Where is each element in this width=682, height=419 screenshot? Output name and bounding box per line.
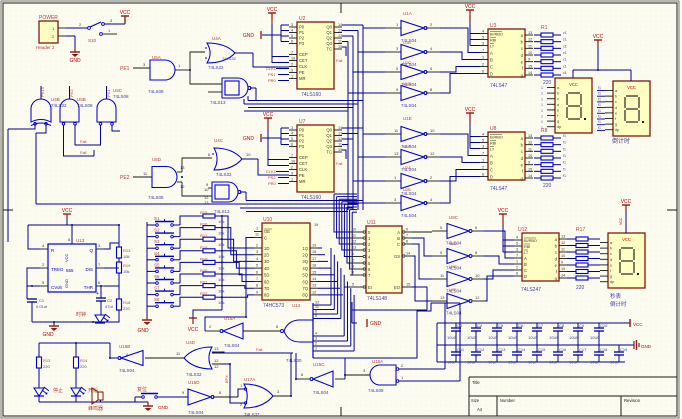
svg-text:2: 2 [482,166,484,170]
svg-text:10UF: 10UF [508,360,518,365]
svg-text:U5B: U5B [77,97,86,102]
svg-text:U2A: U2A [403,165,411,170]
svg-text:VCC: VCC [62,208,73,214]
svg-text:BI/RBO: BI/RBO [524,239,537,243]
svg-text:PX1: PX1 [106,89,111,97]
svg-text:B: B [490,160,493,165]
svg-text:PE: PE [299,173,305,178]
svg-text:3: 3 [352,265,354,269]
svg-text:U1D: U1D [403,81,411,86]
svg-text:1: 1 [352,252,354,256]
svg-text:D: D [524,274,527,279]
svg-text:秒表: 秒表 [610,292,622,300]
svg-text:3: 3 [516,248,518,252]
svg-text:3: 3 [482,42,484,46]
svg-text:f1: f1 [598,109,601,113]
svg-text:R19: R19 [123,263,131,268]
svg-text:10UF: 10UF [569,335,579,340]
svg-text:10k: 10k [218,231,224,236]
svg-text:C6: C6 [518,323,524,328]
svg-text:TC: TC [326,150,332,155]
svg-text:c1: c1 [563,38,567,42]
svg-text:f1: f1 [598,97,601,101]
svg-text:R17: R17 [576,227,585,233]
svg-text:1D: 1D [264,246,269,251]
svg-text:Q0: Q0 [326,128,332,133]
svg-text:6Q: 6Q [302,279,308,284]
svg-text:1: 1 [541,109,543,113]
svg-text:VCC: VCC [120,10,131,16]
svg-text:A: A [490,153,493,158]
svg-text:C17: C17 [579,347,587,352]
svg-text:10UF: 10UF [467,360,477,365]
svg-text:RBI: RBI [490,141,496,145]
svg-text:e: e [610,263,612,267]
svg-text:74LS32: 74LS32 [186,372,202,377]
svg-text:3: 3 [291,23,293,27]
svg-text:8Q: 8Q [302,293,308,298]
svg-text:74LS04: 74LS04 [313,390,329,395]
svg-text:PS2: PS2 [268,175,276,180]
svg-text:U1B: U1B [403,40,411,45]
svg-text:f1: f1 [598,115,601,119]
svg-text:5: 5 [482,36,484,40]
svg-text:14: 14 [528,174,532,178]
svg-text:C5: C5 [498,323,504,328]
svg-text:13: 13 [338,132,342,136]
svg-text:RBI: RBI [490,38,496,42]
svg-text:220: 220 [543,183,552,189]
svg-text:12: 12 [180,184,185,189]
svg-text:GND: GND [243,33,255,39]
svg-text:C7: C7 [538,323,544,328]
svg-text:12: 12 [561,241,565,245]
svg-text:C: C [490,64,493,69]
svg-text:U5A: U5A [152,55,161,60]
svg-text:Q1: Q1 [326,133,332,138]
svg-text:Fail: Fail [80,150,87,155]
svg-text:f1: f1 [598,103,601,107]
svg-text:C18: C18 [600,347,608,352]
svg-text:4Q: 4Q [302,266,308,271]
svg-text:12: 12 [315,301,319,305]
svg-text:CLK1: CLK1 [266,66,277,71]
svg-text:2Q: 2Q [302,253,308,258]
svg-text:GND: GND [158,405,169,410]
svg-text:5: 5 [315,314,317,318]
svg-text:BI/RBO: BI/RBO [490,32,503,36]
svg-text:74LS32: 74LS32 [208,65,224,70]
svg-text:S7: S7 [154,286,160,291]
svg-text:10k: 10k [218,254,224,259]
svg-text:12: 12 [214,364,219,369]
svg-text:10UF: 10UF [508,335,518,340]
svg-text:4D: 4D [264,266,269,271]
svg-text:9: 9 [406,228,408,232]
svg-text:6D: 6D [264,279,269,284]
svg-text:b: b [615,95,617,99]
svg-text:10UF: 10UF [549,360,559,365]
svg-text:10UF: 10UF [549,335,559,340]
svg-text:6: 6 [256,270,258,274]
svg-text:1: 1 [541,115,543,119]
svg-text:B: B [524,262,527,267]
svg-text:10UF: 10UF [590,335,600,340]
svg-text:5: 5 [256,264,258,268]
svg-text:e: e [557,108,559,112]
svg-text:U14: U14 [292,303,301,308]
svg-text:停止: 停止 [53,387,63,394]
svg-text:C12: C12 [477,347,485,352]
svg-text:14: 14 [338,23,342,27]
svg-text:U9C: U9C [449,215,459,220]
svg-text:3: 3 [291,126,293,130]
svg-text:U1A: U1A [403,11,412,16]
svg-text:1: 1 [482,159,484,163]
svg-text:74LS13: 74LS13 [214,209,230,214]
svg-text:U15C: U15C [313,362,325,367]
svg-text:U15D: U15D [188,380,200,385]
svg-text:CEP: CEP [299,52,308,57]
svg-text:U4D: U4D [186,340,196,345]
svg-text:15: 15 [338,148,342,152]
svg-text:1: 1 [315,347,317,351]
svg-text:1: 1 [256,227,258,231]
svg-text:9: 9 [256,290,258,294]
svg-text:3: 3 [482,145,484,149]
svg-text:10k: 10k [218,265,224,270]
svg-text:12: 12 [528,141,532,145]
svg-text:R1: R1 [541,25,548,31]
svg-text:9: 9 [561,261,563,265]
svg-text:2: 2 [256,244,258,248]
svg-text:CET: CET [299,58,308,63]
svg-text:2: 2 [516,266,518,270]
svg-text:dp: dp [557,125,561,129]
svg-text:0.01uf: 0.01uf [36,304,48,309]
svg-text:74LS30: 74LS30 [286,358,302,363]
svg-text:11: 11 [528,147,532,151]
svg-text:4: 4 [291,29,293,33]
svg-text:S3: S3 [154,239,160,244]
svg-text:1Q: 1Q [302,246,308,251]
svg-text:CEP: CEP [299,155,308,160]
svg-text:6: 6 [482,70,484,74]
svg-text:b: b [610,247,612,251]
svg-text:U5D: U5D [152,157,162,162]
svg-text:U13: U13 [76,238,85,243]
svg-text:Fail: Fail [336,161,343,166]
svg-text:10k: 10k [123,269,129,274]
svg-text:47uf: 47uf [105,304,114,309]
svg-text:f1: f1 [598,92,601,96]
svg-text:R8: R8 [541,128,548,134]
svg-text:10: 10 [246,152,251,157]
svg-text:74LS13: 74LS13 [210,100,226,105]
svg-text:10: 10 [528,154,532,158]
svg-text:U3: U3 [490,23,497,29]
svg-text:220: 220 [543,80,552,86]
svg-text:10: 10 [291,57,295,61]
svg-text:7: 7 [291,154,293,158]
svg-text:2: 2 [291,63,293,67]
svg-text:14: 14 [312,277,316,281]
svg-text:PE2: PE2 [120,175,130,181]
svg-text:11: 11 [315,305,319,309]
svg-text:2: 2 [482,63,484,67]
svg-text:LT: LT [490,147,495,151]
svg-text:10UF: 10UF [590,360,600,365]
svg-text:GND: GND [69,58,81,64]
svg-text:P0: P0 [299,25,305,30]
svg-text:C13: C13 [498,347,506,352]
svg-text:MR: MR [299,76,306,81]
svg-text:TC: TC [326,47,332,52]
svg-text:VCC: VCC [627,85,636,90]
svg-text:2: 2 [352,259,354,263]
svg-text:f1: f1 [563,161,566,165]
svg-text:10: 10 [430,128,435,133]
svg-text:14: 14 [561,274,565,278]
svg-text:U15B: U15B [119,344,130,349]
svg-text:7: 7 [291,51,293,55]
svg-text:f1: f1 [598,120,601,124]
svg-text:VCC: VCC [188,327,199,333]
svg-text:f1: f1 [598,86,601,90]
svg-text:10UF: 10UF [488,360,498,365]
svg-text:555: 555 [66,268,74,273]
svg-text:74LS08: 74LS08 [148,89,164,94]
svg-text:e: e [615,111,617,115]
svg-text:f1: f1 [563,174,566,178]
svg-text:9: 9 [291,172,293,176]
svg-text:11: 11 [561,248,565,252]
svg-text:S2: S2 [154,228,160,233]
svg-text:Q3: Q3 [326,144,332,149]
svg-text:12: 12 [352,240,356,244]
svg-text:4: 4 [315,332,317,336]
svg-text:2: 2 [315,342,317,346]
svg-text:C14: C14 [518,347,526,352]
svg-text:GND: GND [137,328,149,334]
svg-text:PE: PE [299,70,305,75]
svg-text:3: 3 [256,250,258,254]
svg-text:c: c [555,250,557,255]
svg-text:D: D [490,174,493,179]
svg-text:复位: 复位 [137,386,147,393]
svg-text:A4: A4 [477,407,483,412]
svg-text:c1: c1 [563,31,567,35]
svg-text:13: 13 [440,295,445,300]
svg-text:PE1: PE1 [120,66,130,72]
svg-text:13: 13 [214,346,219,351]
svg-text:74LS247: 74LS247 [521,287,541,293]
svg-text:RBI: RBI [524,245,530,249]
svg-text:CLK: CLK [299,64,307,69]
svg-text:7Q: 7Q [302,286,308,291]
svg-text:C2: C2 [107,298,113,303]
svg-text:74LS08: 74LS08 [113,94,129,99]
svg-text:74LS04: 74LS04 [224,343,240,348]
svg-text:U4B: U4B [51,97,60,102]
svg-text:9: 9 [528,161,530,165]
svg-text:TREG: TREG [51,267,64,272]
svg-text:7D: 7D [264,286,269,291]
svg-text:+: + [96,291,99,297]
svg-text:P3: P3 [299,144,305,149]
svg-text:GS: GS [394,254,400,259]
svg-text:1: 1 [541,120,543,124]
svg-text:1: 1 [291,178,293,182]
svg-text:c1: c1 [563,44,567,48]
svg-text:13: 13 [528,134,532,138]
svg-text:VCC: VCC [263,112,274,118]
svg-text:f1: f1 [563,141,566,145]
svg-text:Size: Size [471,398,480,403]
svg-text:f1: f1 [598,126,601,130]
svg-text:c1: c1 [563,58,567,62]
svg-text:PX2: PX2 [69,89,74,97]
svg-text:10: 10 [352,228,356,232]
svg-text:74LS04: 74LS04 [401,103,417,108]
svg-text:U16A: U16A [372,359,383,364]
svg-text:dp: dp [610,280,614,284]
svg-text:c: c [610,252,612,256]
svg-text:P1: P1 [299,133,305,138]
svg-text:5: 5 [516,242,518,246]
svg-text:A: A [397,230,400,235]
svg-text:OE: OE [264,229,270,234]
svg-text:THR: THR [84,285,94,290]
svg-text:74LS160: 74LS160 [301,92,321,98]
svg-text:7: 7 [482,49,484,53]
svg-text:C: C [490,167,493,172]
svg-text:GND: GND [64,279,69,288]
svg-text:74LS47: 74LS47 [490,83,507,89]
svg-text:C: C [397,242,400,247]
svg-text:74LS04: 74LS04 [119,368,135,373]
svg-text:4: 4 [352,271,354,275]
svg-text:10k: 10k [218,277,224,282]
svg-text:1: 1 [516,260,518,264]
svg-text:GND: GND [42,332,54,338]
svg-text:P1: P1 [299,30,305,35]
svg-text:15: 15 [312,270,316,274]
svg-text:12: 12 [214,358,219,363]
svg-text:3: 3 [315,337,317,341]
svg-text:Fail: Fail [80,139,87,144]
svg-text:C15: C15 [538,347,546,352]
svg-text:15: 15 [338,45,342,49]
svg-text:15: 15 [528,167,532,171]
svg-text:VCC: VCC [619,217,623,225]
svg-text:220: 220 [576,285,585,291]
svg-text:4: 4 [482,133,484,137]
svg-text:220: 220 [80,364,87,369]
svg-text:S1: S1 [154,216,160,221]
svg-text:15: 15 [561,267,565,271]
svg-text:c: c [615,100,617,104]
svg-text:VCC: VCC [498,208,509,214]
svg-text:U9E: U9E [449,264,457,269]
svg-text:14: 14 [406,252,410,256]
svg-text:VCC: VCC [622,237,631,242]
svg-text:1: 1 [541,86,543,90]
svg-text:6: 6 [291,40,293,44]
svg-text:c1: c1 [563,64,567,68]
svg-text:10UF: 10UF [528,360,538,365]
svg-text:13: 13 [394,151,399,156]
svg-text:4: 4 [516,236,518,240]
svg-text:C3: C3 [457,323,463,328]
svg-text:BI/RBO: BI/RBO [490,135,503,139]
svg-text:10UF: 10UF [467,335,477,340]
svg-text:S10: S10 [88,38,97,43]
svg-text:Q3: Q3 [326,41,332,46]
svg-text:74LS32: 74LS32 [216,172,232,177]
svg-text:11: 11 [255,233,259,237]
svg-text:C11: C11 [457,347,465,352]
svg-text:74HC573: 74HC573 [263,303,284,309]
svg-text:1: 1 [291,75,293,79]
svg-text:蜂鸣器: 蜂鸣器 [88,405,103,412]
svg-text:7: 7 [482,152,484,156]
svg-text:12: 12 [312,290,316,294]
svg-text:倒计时: 倒计时 [610,300,627,308]
svg-text:S5: S5 [154,262,160,267]
svg-text:LT: LT [524,251,529,255]
svg-text:U1E: U1E [403,116,412,121]
svg-text:Q2: Q2 [326,139,332,144]
svg-text:CET: CET [299,161,308,166]
svg-text:c1: c1 [563,71,567,75]
svg-text:5: 5 [291,34,293,38]
svg-text:6: 6 [406,240,408,244]
svg-text:10UF: 10UF [447,335,457,340]
svg-text:f1: f1 [563,134,566,138]
svg-text:5Q: 5Q [302,273,308,278]
svg-text:14: 14 [338,126,342,130]
svg-text:10k: 10k [218,300,224,305]
svg-text:74LS47: 74LS47 [490,186,507,192]
svg-text:15: 15 [406,283,410,287]
svg-text:13: 13 [338,29,342,33]
svg-text:C: C [264,236,267,241]
svg-text:2: 2 [291,166,293,170]
svg-text:74LS04: 74LS04 [401,213,417,218]
svg-text:74LS08: 74LS08 [148,195,164,200]
svg-text:A: A [490,50,493,55]
svg-text:Header 2: Header 2 [36,45,55,50]
svg-text:10k: 10k [218,289,224,294]
svg-text:10UF: 10UF [488,335,498,340]
svg-text:74LS04: 74LS04 [188,410,204,415]
svg-text:11: 11 [338,40,342,44]
svg-text:C4: C4 [477,323,483,328]
svg-text:MR: MR [299,179,306,184]
svg-text:C9: C9 [579,323,585,328]
svg-text:7: 7 [516,254,518,258]
svg-text:CLK: CLK [299,167,307,172]
svg-text:74LS08: 74LS08 [77,103,93,108]
svg-text:R14: R14 [80,358,88,363]
svg-text:11: 11 [352,234,356,238]
svg-text:P2: P2 [299,36,305,41]
svg-text:Title: Title [472,380,480,385]
svg-text:U10: U10 [263,217,272,223]
svg-text:74LS32: 74LS32 [244,412,260,417]
svg-text:VCC: VCC [621,199,632,205]
